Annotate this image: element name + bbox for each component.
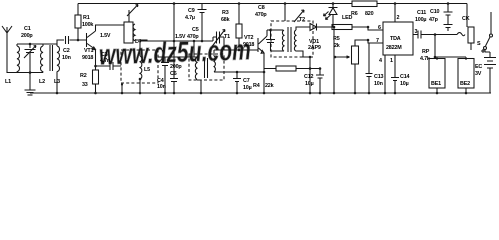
svg-text:470p: 470p bbox=[187, 34, 199, 40]
svg-text:10n: 10n bbox=[62, 55, 71, 61]
node feed junction bbox=[173, 40, 176, 43]
svg-text:C12: C12 bbox=[304, 74, 313, 80]
svg-text:68k: 68k bbox=[221, 17, 230, 23]
node L5 bottom junction bbox=[139, 78, 142, 81]
node C9 junction bbox=[201, 40, 204, 43]
wire VT2 collector to T2 bbox=[267, 29, 283, 31]
bottom ground rail bbox=[30, 92, 491, 94]
svg-text:R3: R3 bbox=[222, 10, 229, 16]
node LED rail junction bbox=[332, 2, 335, 5]
wire tank top bbox=[17, 43, 57, 45]
wire secondary bottom bbox=[296, 51, 310, 93]
wire pin2 to rail bbox=[394, 4, 396, 23]
node detector junction bbox=[333, 26, 336, 29]
capacitor C6 bbox=[161, 57, 169, 93]
capacitor C7 electrolytic bbox=[233, 72, 241, 93]
wire to pin6 bbox=[368, 27, 383, 30]
svg-text:L3: L3 bbox=[54, 79, 60, 85]
resistor R1 bbox=[77, 4, 79, 41]
svg-text:BE2: BE2 bbox=[460, 81, 470, 87]
wire tank bottom to ground bbox=[29, 73, 31, 91]
wire detector down bbox=[333, 27, 335, 93]
svg-text:RP: RP bbox=[422, 49, 430, 55]
node pot rail bbox=[354, 92, 357, 95]
transistor VT2 bbox=[258, 30, 267, 93]
coil L3 bbox=[57, 44, 59, 93]
wire feed to coupling coil bbox=[193, 41, 195, 57]
antenna bbox=[2, 26, 12, 44]
svg-text:4.7k: 4.7k bbox=[420, 56, 430, 62]
node base junction bbox=[238, 49, 241, 52]
svg-text:T2: T2 bbox=[299, 17, 305, 23]
svg-text:L2: L2 bbox=[39, 79, 45, 85]
potentiometer volume bbox=[352, 46, 359, 64]
svg-text:3V: 3V bbox=[475, 71, 482, 77]
svg-text:T1: T1 bbox=[224, 34, 230, 40]
capacitor C12 electrolytic bbox=[316, 69, 324, 94]
resistor R2 bbox=[95, 66, 97, 93]
svg-text:VT1: VT1 bbox=[84, 48, 93, 54]
switch S bbox=[490, 12, 492, 34]
node emitter return junction bbox=[263, 71, 266, 74]
svg-text:C13: C13 bbox=[374, 74, 383, 80]
svg-text:200p: 200p bbox=[170, 64, 182, 70]
svg-text:C8: C8 bbox=[258, 5, 265, 11]
node C11 rail junction bbox=[447, 2, 450, 5]
node earpiece junction bbox=[434, 56, 437, 59]
node R2 bottom on rail bbox=[94, 92, 97, 95]
resistor R5 bbox=[332, 26, 369, 28]
svg-text:BE1: BE1 bbox=[431, 81, 441, 87]
svg-text:10n: 10n bbox=[157, 84, 166, 90]
svg-text:EC: EC bbox=[475, 64, 482, 70]
svg-text:C1: C1 bbox=[24, 26, 31, 32]
node C13 rail bbox=[368, 92, 371, 95]
core L2/L3 bbox=[50, 45, 53, 71]
node L3 bottom on rail bbox=[56, 92, 59, 95]
capacitor C11 C10 rail decoupling bbox=[444, 4, 453, 32]
node L5 bottom on rail bbox=[139, 92, 142, 95]
capacitor C1 variable bbox=[24, 44, 36, 73]
wire antenna to coil bbox=[7, 44, 43, 73]
svg-text:100k: 100k bbox=[82, 22, 93, 28]
node R3 rail junction bbox=[238, 2, 241, 5]
node VT1 emitter junction bbox=[94, 65, 97, 68]
svg-text:R2: R2 bbox=[80, 73, 87, 79]
svg-text:R6: R6 bbox=[351, 11, 358, 17]
node output junction bbox=[434, 33, 437, 36]
svg-text:470p: 470p bbox=[255, 12, 267, 18]
wire L5 bottom bbox=[139, 79, 141, 93]
node rail feed junction bbox=[173, 2, 176, 5]
node C7 rail junction bbox=[236, 92, 239, 95]
svg-text:2AP9: 2AP9 bbox=[308, 45, 321, 51]
svg-text:33: 33 bbox=[82, 82, 88, 88]
svg-text:1.5V: 1.5V bbox=[100, 33, 111, 39]
wire secondary top to detector bbox=[296, 27, 308, 30]
coil L5 bbox=[140, 56, 142, 79]
node secondary junction bbox=[309, 56, 312, 59]
svg-text:1: 1 bbox=[390, 58, 393, 64]
svg-text:TDA: TDA bbox=[390, 36, 401, 42]
node pin7 junction bbox=[367, 39, 370, 42]
wire L5 top bbox=[139, 41, 141, 56]
svg-text:2k: 2k bbox=[334, 43, 340, 49]
wire shield left leg bbox=[121, 85, 123, 94]
capacitor C14 electrolytic bbox=[391, 55, 399, 93]
coil L1 bbox=[17, 44, 19, 73]
svg-text:10µ: 10µ bbox=[400, 81, 409, 87]
top supply rail bbox=[78, 3, 467, 5]
node R1 base junction bbox=[77, 39, 80, 42]
node C7 junction bbox=[236, 71, 239, 74]
LED indicator bbox=[324, 4, 338, 28]
node secondary rail bbox=[309, 92, 312, 95]
capacitor C2 series bbox=[66, 36, 87, 44]
battery EC 3V bbox=[484, 58, 496, 69]
svg-text:R1: R1 bbox=[83, 15, 90, 21]
node T2 rail junction bbox=[284, 2, 287, 5]
svg-text:10µ: 10µ bbox=[305, 81, 314, 87]
wire pin4 ground bbox=[384, 55, 386, 93]
coil T2 secondary bbox=[294, 30, 296, 51]
svg-text:CK: CK bbox=[462, 16, 470, 22]
svg-text:4: 4 bbox=[379, 58, 382, 64]
wire output down bbox=[434, 35, 436, 58]
core T2 bbox=[288, 27, 291, 52]
transformer B shield dashed box bbox=[189, 54, 224, 80]
svg-text:10µ: 10µ bbox=[243, 85, 252, 91]
coil L2 bbox=[41, 44, 43, 73]
wire oscillator line bbox=[140, 40, 213, 42]
svg-text:C11: C11 bbox=[417, 10, 426, 16]
op-amp IC TDA2822M bbox=[383, 22, 413, 55]
svg-text:4.7n: 4.7n bbox=[100, 58, 110, 64]
ground bbox=[25, 90, 36, 93]
coil L4 with core box and arrow bbox=[124, 22, 133, 43]
svg-text:100µ: 100µ bbox=[415, 17, 426, 23]
capacitor C3 bbox=[96, 62, 122, 70]
transformer B coupling primary bbox=[195, 57, 201, 93]
svg-text:C14: C14 bbox=[400, 74, 409, 80]
svg-text:10n: 10n bbox=[374, 81, 383, 87]
svg-text:4.7µ: 4.7µ bbox=[185, 15, 195, 21]
node tank-top junction bbox=[29, 43, 32, 46]
diode VD1 2AP9 bbox=[308, 24, 334, 31]
wire to pin7 bbox=[368, 40, 383, 43]
node VT2 emitter rail bbox=[263, 92, 266, 95]
svg-text:47p: 47p bbox=[429, 17, 439, 23]
jack CK bbox=[435, 33, 465, 36]
wire to earpieces bbox=[435, 57, 466, 60]
coil T2 primary bbox=[282, 30, 284, 51]
svg-text:VT2: VT2 bbox=[244, 35, 253, 41]
capacitor C8 bbox=[266, 30, 284, 51]
wire VT2 base line bbox=[214, 49, 258, 51]
resistor R6 on rail bbox=[352, 1, 377, 7]
svg-text:C7: C7 bbox=[243, 78, 250, 84]
svg-text:2: 2 bbox=[397, 15, 400, 21]
svg-text:C10: C10 bbox=[430, 9, 439, 15]
svg-text:L5: L5 bbox=[144, 67, 150, 73]
transformer T1 dashed shield box bbox=[121, 50, 158, 83]
svg-text:S: S bbox=[477, 41, 481, 47]
watermark www.dz5u.com bbox=[98, 34, 251, 71]
svg-text:820: 820 bbox=[365, 11, 374, 17]
resistor R3 bbox=[238, 4, 240, 51]
svg-text:22k: 22k bbox=[265, 83, 274, 89]
svg-text:C2: C2 bbox=[63, 48, 70, 54]
wire emitter return bbox=[237, 71, 264, 73]
node R5 out junction bbox=[367, 26, 370, 29]
core transformer B bbox=[205, 58, 208, 78]
capacitor T1 trimmer with arrow bbox=[212, 30, 225, 51]
wire rail to oscillator line bbox=[173, 4, 175, 42]
wire coupling top bbox=[158, 56, 197, 58]
wire T2 primary top to rail bbox=[284, 4, 286, 22]
svg-text:7: 7 bbox=[376, 38, 379, 44]
svg-text:C5: C5 bbox=[192, 27, 199, 33]
svg-text:L1: L1 bbox=[5, 79, 11, 85]
node collector junction bbox=[269, 29, 272, 32]
transformer T2 dashed shield box bbox=[271, 21, 313, 57]
wire L3 top to base bbox=[57, 40, 64, 46]
svg-text:9018: 9018 bbox=[82, 55, 93, 61]
svg-text:6: 6 bbox=[378, 25, 381, 31]
wire L4 to tank line bbox=[135, 40, 147, 41]
capacitor C4 on feed line bbox=[170, 41, 178, 93]
svg-text:2822M: 2822M bbox=[386, 45, 402, 51]
svg-text:1.5V: 1.5V bbox=[175, 34, 186, 40]
svg-text:C6: C6 bbox=[170, 71, 177, 77]
capacitor output coupling bbox=[413, 31, 435, 39]
transformer B secondary bbox=[214, 50, 237, 72]
capacitor C9 electrolytic bbox=[198, 4, 207, 42]
node pin4 rail bbox=[384, 92, 387, 95]
svg-text:C9: C9 bbox=[188, 8, 195, 14]
node tank-bottom junction bbox=[29, 71, 32, 74]
earpiece BE2 bbox=[458, 59, 474, 89]
svg-text:9018: 9018 bbox=[243, 42, 254, 48]
transistor VT1 bbox=[87, 25, 125, 66]
capacitor C13 bbox=[366, 43, 373, 93]
resistor R4 bbox=[264, 68, 320, 70]
svg-text:200p: 200p bbox=[21, 33, 33, 39]
svg-text:R4: R4 bbox=[253, 83, 260, 89]
earpiece BE1 bbox=[429, 59, 445, 89]
